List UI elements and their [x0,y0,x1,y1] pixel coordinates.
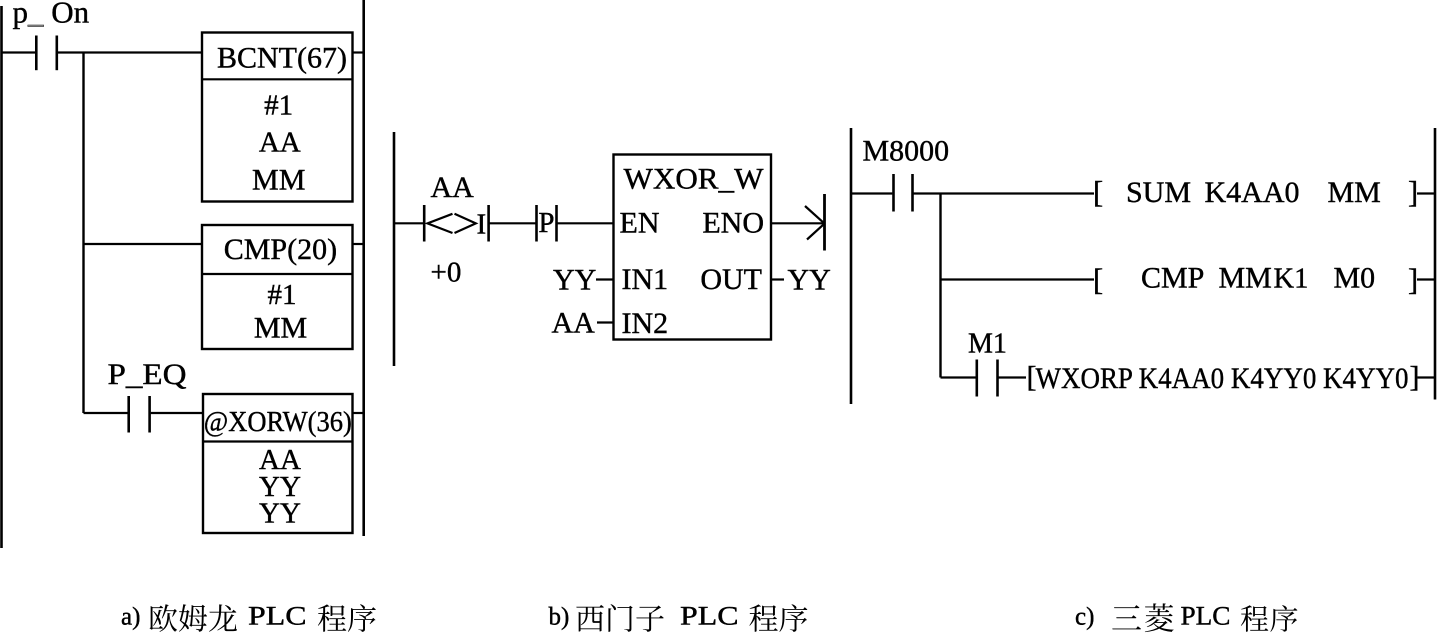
svg-text:AA: AA [552,307,596,340]
svg-text:WXOR_W: WXOR_W [624,163,765,196]
svg-text:]: ] [1408,263,1418,297]
svg-text:PLC: PLC [1181,600,1231,630]
svg-text:AA: AA [259,127,301,159]
svg-text:BCNT(67): BCNT(67) [217,41,347,74]
svg-text:CMP(20): CMP(20) [224,233,337,266]
svg-text:MM: MM [1219,262,1272,295]
svg-text:AA: AA [431,171,475,204]
svg-text:[: [ [1093,263,1103,297]
svg-text:P: P [538,207,554,239]
svg-text:MM: MM [252,164,305,197]
svg-text:M8000: M8000 [863,135,950,168]
svg-text:#1: #1 [264,90,293,122]
svg-text:+0: +0 [431,257,462,289]
svg-text:]: ] [1408,175,1418,209]
svg-text:YY: YY [259,498,301,530]
svg-text:EN: EN [620,207,660,240]
svg-text:WXORP K4AA0 K4YY0 K4YY0: WXORP K4AA0 K4YY0 K4YY0 [1036,362,1409,395]
svg-text:K4AA0: K4AA0 [1205,176,1300,209]
svg-text:PLC: PLC [248,600,307,630]
svg-text:b): b) [549,603,570,630]
svg-text:ENO: ENO [702,207,764,240]
svg-text:p_ On: p_ On [13,0,90,30]
svg-text:MM: MM [1328,176,1381,209]
svg-text:IN2: IN2 [622,307,669,340]
svg-text:YY: YY [788,264,831,297]
svg-text:#1: #1 [268,279,297,311]
svg-text:IN1: IN1 [622,263,669,296]
svg-text:YY: YY [553,264,596,297]
svg-text:MM: MM [254,312,307,345]
svg-text:PLC: PLC [680,600,739,630]
svg-text:[: [ [1093,175,1103,209]
svg-text:@XORW(36): @XORW(36) [204,406,352,438]
svg-text:a): a) [121,603,140,630]
svg-text:I: I [477,209,487,241]
svg-text:K1: K1 [1274,264,1309,295]
svg-text:P_EQ: P_EQ [108,358,187,391]
svg-text:OUT: OUT [700,263,762,296]
svg-text:M1: M1 [968,329,1007,360]
svg-text:M0: M0 [1334,262,1376,295]
svg-text:c): c) [1075,603,1094,630]
svg-text:SUM: SUM [1126,176,1191,209]
svg-text:CMP: CMP [1141,262,1204,295]
